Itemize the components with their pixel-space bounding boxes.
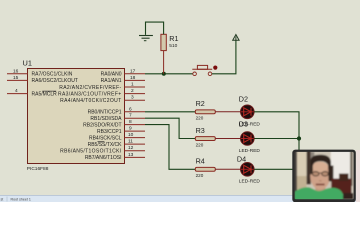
pin 4 RA5/MCLR stub — [7, 88, 28, 94]
svg-text:Root sheet 1: Root sheet 1 — [11, 197, 31, 201]
pin 17 RA0/AN0 stub — [124, 68, 145, 74]
svg-text:R3: R3 — [196, 126, 205, 135]
svg-text:RA5/MCLR: RA5/MCLR — [32, 91, 58, 97]
svg-text:17: 17 — [130, 68, 136, 74]
svg-text:RB5/SS/TX/CK: RB5/SS/TX/CK — [88, 142, 123, 148]
resistor R1 — [161, 34, 179, 51]
ground symbol — [139, 36, 153, 41]
svg-text:PIC16F88: PIC16F88 — [27, 166, 49, 172]
wire R1 top to ground — [146, 22, 164, 35]
resistor R4 — [195, 157, 215, 178]
pin 8 RB2 stub — [124, 119, 145, 125]
svg-text:R1: R1 — [169, 34, 178, 43]
pin 18 RA1/AN1 stub — [124, 75, 145, 81]
svg-text:12: 12 — [128, 145, 134, 151]
svg-text:16: 16 — [13, 68, 19, 74]
wire RB2 to R4 — [145, 125, 195, 170]
wire D3 to cathode bus — [254, 138, 299, 140]
pin 15 RA6/OSC2/CLKOUT stub — [7, 75, 28, 81]
pin 1 RA2 stub — [124, 82, 145, 88]
wire cathode bus down — [298, 139, 300, 173]
svg-text:RB3/CCP1: RB3/CCP1 — [97, 129, 122, 135]
wire RB1 to R3 — [145, 118, 195, 138]
svg-text:220: 220 — [196, 173, 204, 178]
svg-text:220: 220 — [196, 116, 204, 121]
wire D2 to cathode bus — [254, 112, 299, 139]
svg-text:11: 11 — [128, 139, 133, 145]
svg-text:RB0/INT/CCP1: RB0/INT/CCP1 — [88, 110, 122, 116]
pin 6 RB0 stub — [124, 106, 145, 112]
svg-text:3: 3 — [131, 95, 134, 101]
svg-text:2: 2 — [131, 88, 134, 94]
svg-text:13: 13 — [128, 152, 134, 158]
wire RB0 to R2 — [145, 111, 195, 113]
svg-text:RA4/AN4/T0CKI/C2OUT: RA4/AN4/T0CKI/C2OUT — [60, 98, 121, 104]
LED D2 — [239, 95, 261, 128]
wire D4 to cathode bus — [254, 168, 299, 170]
svg-text:U1: U1 — [23, 59, 32, 68]
power terminal VCC arrow — [233, 35, 239, 41]
pin 13 RB7 stub — [124, 152, 145, 158]
LED D4 — [237, 155, 260, 185]
wire R1 bottom lead — [163, 51, 165, 74]
status bar — [0, 195, 360, 202]
pin 16 RA7/OSC1/CLKIN stub — [7, 68, 28, 74]
pin name RA5/MCLR with overline — [32, 91, 58, 97]
svg-text:15: 15 — [13, 75, 19, 81]
svg-text:8: 8 — [129, 119, 132, 125]
svg-text:RA2/AN2/CVREF/VREF-: RA2/AN2/CVREF/VREF- — [59, 85, 121, 91]
svg-text:6: 6 — [129, 106, 132, 112]
svg-text:4: 4 — [15, 88, 18, 94]
pin 10 RB4 stub — [124, 132, 145, 138]
pin 12 RB6 stub — [124, 145, 145, 151]
pin 11 RB5 stub — [124, 139, 145, 145]
svg-text:RA7/OSC1/CLKIN: RA7/OSC1/CLKIN — [32, 72, 73, 78]
svg-text:10: 10 — [128, 132, 134, 138]
pin 2 RA3 stub — [124, 88, 145, 94]
wire R3 to D3 — [215, 138, 240, 140]
wire button to power terminal — [212, 40, 236, 74]
resistor R2 — [195, 99, 215, 120]
svg-text:18: 18 — [130, 75, 136, 81]
svg-text:RB6/AN5/T1OSO/T1CKI: RB6/AN5/T1OSO/T1CKI — [60, 149, 121, 155]
webcam video content — [294, 151, 355, 200]
push button — [192, 65, 217, 75]
svg-text:7: 7 — [129, 113, 132, 119]
junction node cathode bus — [297, 136, 301, 140]
junction node at R1 bottom — [162, 72, 166, 76]
svg-text:220: 220 — [196, 142, 204, 147]
svg-text:st: st — [1, 197, 4, 201]
pin 7 RB1 stub — [124, 113, 145, 119]
pin 3 RA4 stub — [124, 95, 145, 101]
IC U1 body — [28, 69, 125, 164]
LED D3 — [239, 120, 261, 154]
svg-text:RB7/AN6/T1OSI: RB7/AN6/T1OSI — [85, 155, 122, 161]
resistor R3 — [195, 126, 215, 147]
svg-text:R2: R2 — [196, 99, 205, 108]
svg-text:D4: D4 — [237, 155, 246, 164]
wire R4 to D4 — [215, 168, 240, 170]
svg-text:RB1/SDI/SDA: RB1/SDI/SDA — [90, 116, 122, 122]
webcam side strip — [356, 150, 360, 202]
svg-text:D2: D2 — [239, 95, 248, 104]
webcam overlay frame — [292, 150, 356, 203]
svg-text:RA1/AN1: RA1/AN1 — [101, 78, 122, 84]
wire R2 to D2 — [215, 111, 240, 113]
svg-text:D3: D3 — [239, 120, 248, 129]
svg-text:9: 9 — [129, 126, 132, 132]
pin 9 RB3 stub — [124, 126, 145, 132]
svg-text:LED-RED: LED-RED — [239, 148, 261, 154]
svg-text:LED-RED: LED-RED — [239, 179, 261, 185]
svg-text:RA3/AN3/C1OUT/VREF+: RA3/AN3/C1OUT/VREF+ — [58, 91, 121, 97]
svg-text:R4: R4 — [196, 157, 205, 166]
svg-text:RA0/AN0: RA0/AN0 — [101, 72, 122, 78]
svg-text:RA6/OSC2/CLKOUT: RA6/OSC2/CLKOUT — [32, 78, 78, 84]
svg-text:RB4/SCK/SCL: RB4/SCK/SCL — [89, 135, 122, 141]
svg-text:1: 1 — [131, 82, 134, 88]
pin name RB5/SS/TX/CK with overline — [88, 142, 123, 148]
svg-text:510: 510 — [169, 43, 177, 49]
svg-text:RB2/SDO/RX/DT: RB2/SDO/RX/DT — [83, 122, 121, 128]
wire RA0 net from pin17 to button — [145, 73, 193, 75]
